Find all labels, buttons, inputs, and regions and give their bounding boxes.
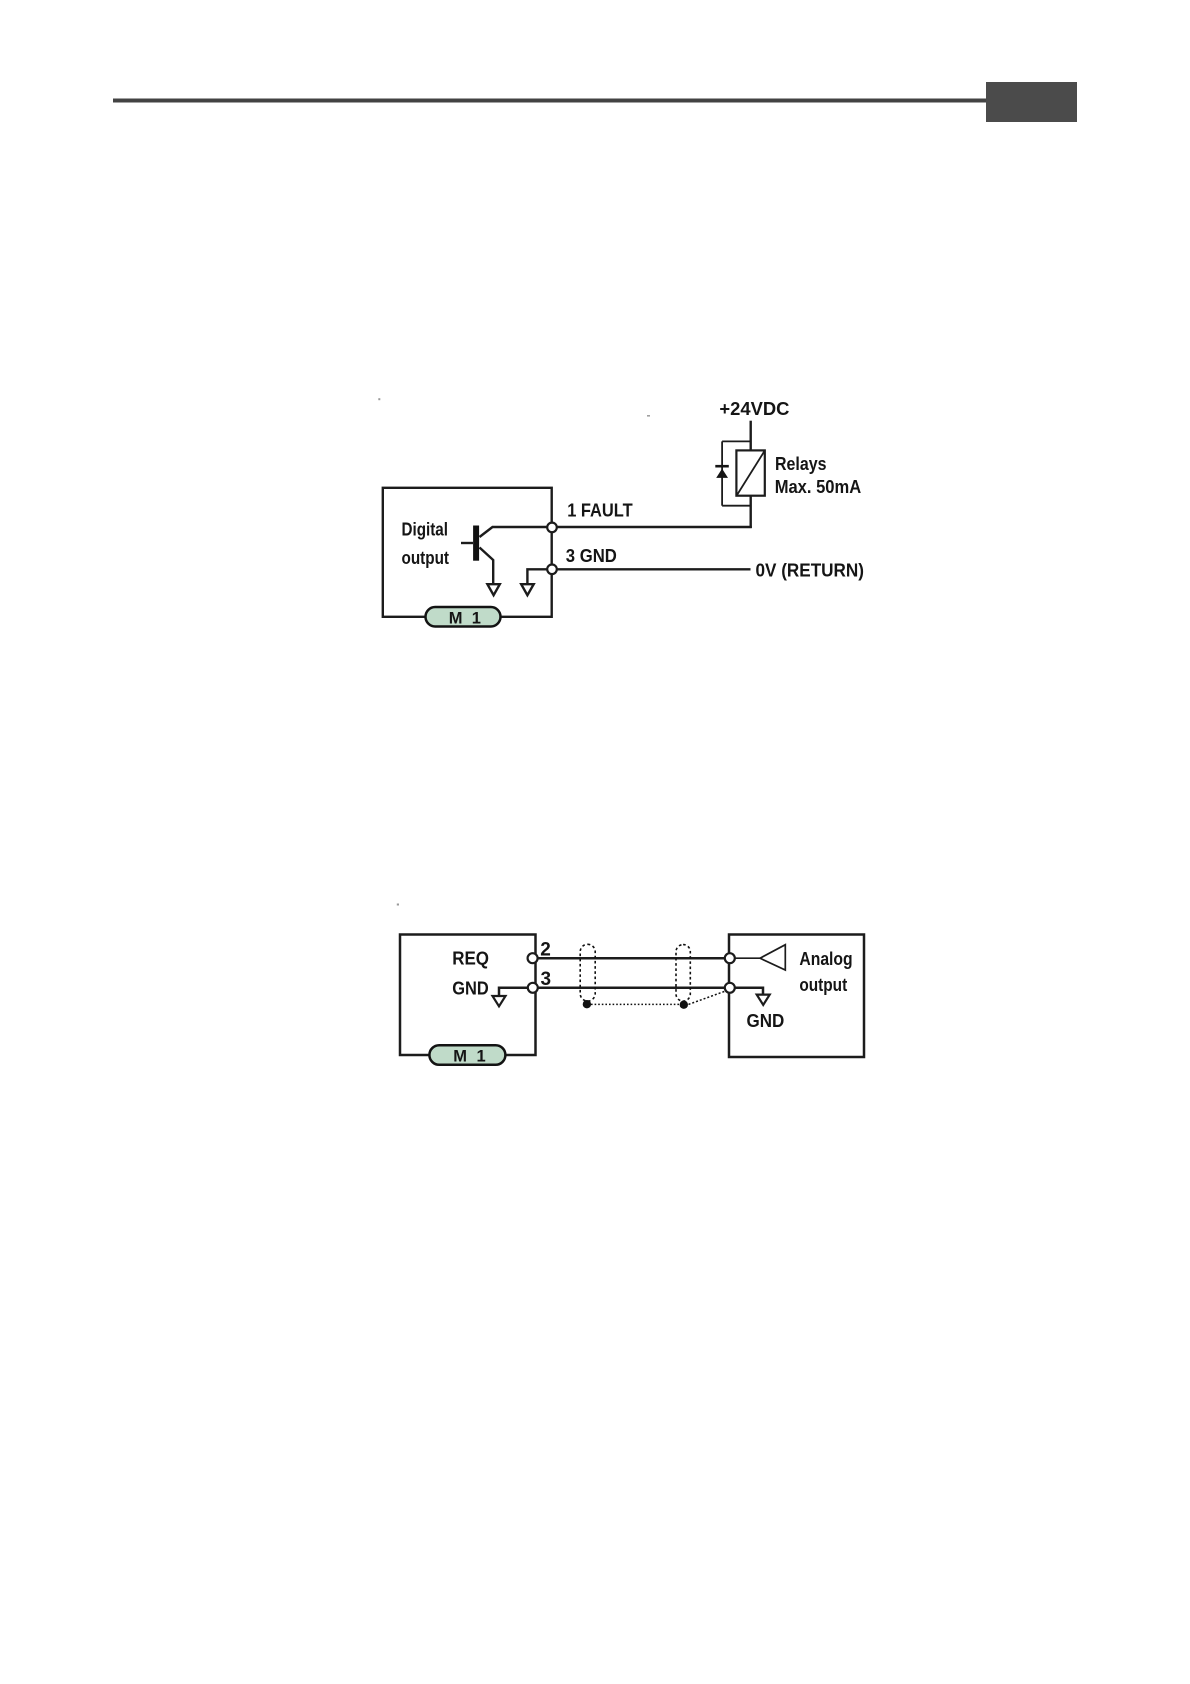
svg-text:1: 1 — [477, 1048, 486, 1066]
svg-text:GND: GND — [452, 978, 489, 998]
svg-text:Digital: Digital — [402, 519, 449, 539]
svg-text:M: M — [453, 1048, 467, 1066]
svg-text:0V (RETURN): 0V (RETURN) — [756, 560, 865, 580]
svg-text:+24VDC: +24VDC — [719, 399, 789, 419]
svg-text:3: 3 — [541, 969, 552, 990]
svg-text:M: M — [449, 609, 463, 627]
svg-text:GND: GND — [747, 1011, 785, 1031]
svg-text:2: 2 — [540, 940, 551, 961]
svg-text:Analog: Analog — [799, 949, 852, 969]
svg-text:output: output — [799, 975, 847, 995]
svg-text:Max. 50mA: Max. 50mA — [775, 477, 862, 497]
svg-text:3 GND: 3 GND — [566, 546, 617, 566]
svg-text:Relays: Relays — [775, 454, 827, 474]
svg-text:1 FAULT: 1 FAULT — [567, 501, 633, 521]
svg-text:REQ: REQ — [452, 949, 489, 969]
svg-text:1: 1 — [472, 609, 481, 627]
svg-text:output: output — [402, 548, 450, 568]
